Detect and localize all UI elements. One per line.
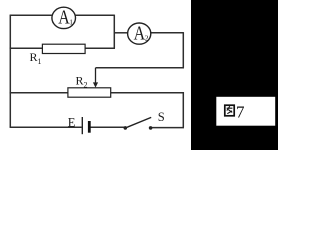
wire: right vertical upper bbox=[182, 32, 184, 68]
svg-text:7: 7 bbox=[236, 103, 245, 122]
resistor R1 bbox=[42, 44, 85, 53]
svg-text:R: R bbox=[30, 50, 38, 64]
svg-text:S: S bbox=[158, 110, 165, 124]
ammeter A2 bbox=[128, 23, 151, 44]
wire: right vertical lower bbox=[182, 92, 184, 127]
switch S bbox=[124, 126, 128, 130]
wire: R1 branch right bbox=[85, 47, 115, 49]
svg-text:1: 1 bbox=[69, 18, 73, 27]
wire: top branch left of A1 bbox=[10, 14, 53, 16]
wire: slider feed horizontal bbox=[96, 67, 185, 69]
battery E plates bbox=[81, 117, 83, 134]
wire: left vertical bbox=[9, 15, 11, 127]
junction vertical wire bbox=[113, 15, 115, 49]
black sidebar panel bbox=[191, 0, 278, 150]
svg-text:1: 1 bbox=[38, 57, 42, 66]
图 glyph (drawn) bbox=[225, 105, 234, 116]
slider arrow of R2 bbox=[93, 68, 98, 88]
rheostat R2 bbox=[68, 88, 111, 97]
ammeter A1 bbox=[52, 7, 76, 28]
figure label box 图7 bbox=[216, 97, 275, 126]
wire: R2 right bbox=[111, 92, 185, 94]
wire: bottom left to battery bbox=[10, 126, 82, 128]
wire: R2 left bbox=[10, 92, 68, 94]
svg-text:2: 2 bbox=[145, 34, 149, 43]
wire: A2 right bbox=[151, 32, 184, 34]
wire: R1 branch left bbox=[10, 47, 43, 49]
wire: battery to switch bbox=[91, 126, 126, 128]
svg-text:2: 2 bbox=[84, 81, 88, 90]
svg-text:A: A bbox=[134, 22, 146, 44]
svg-text:A: A bbox=[58, 7, 70, 29]
svg-text:R: R bbox=[76, 74, 84, 88]
wire: switch to right bbox=[151, 127, 184, 129]
wire: A2 left bbox=[114, 32, 127, 34]
wire: top branch right of A1 bbox=[75, 14, 114, 16]
svg-text:E: E bbox=[68, 116, 76, 130]
